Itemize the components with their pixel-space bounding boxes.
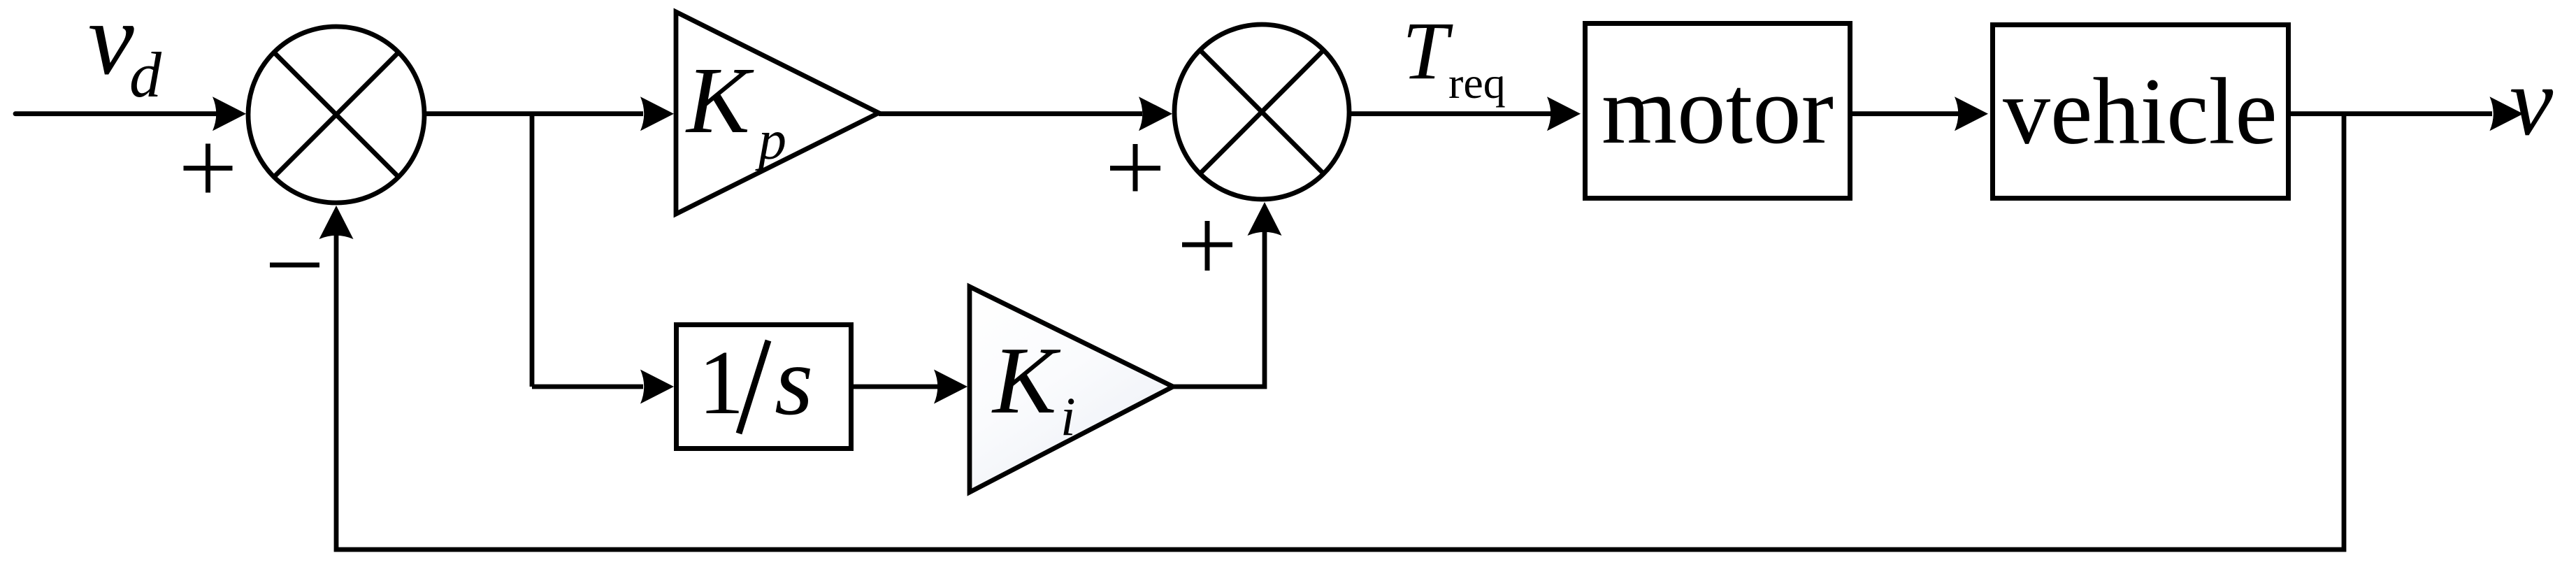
- label 1/s slash: [739, 340, 768, 433]
- svg-text:1: 1: [698, 332, 744, 433]
- summing junction S1: [248, 27, 424, 203]
- integrator block 1/s: [677, 325, 851, 449]
- label 1/s: [698, 325, 813, 436]
- wire integrator to Ki: [853, 385, 940, 389]
- wire S2 to motor: [1349, 111, 1553, 116]
- summing junction S2: [1174, 24, 1349, 199]
- S1 cross X: [274, 52, 398, 177]
- svg-text:i: i: [1060, 386, 1076, 447]
- wire motor to vehicle: [1852, 111, 1960, 116]
- svg-text:vehicle: vehicle: [2003, 59, 2278, 164]
- arrowhead at output v: [2490, 96, 2524, 131]
- wire branch to integrator: [532, 385, 643, 389]
- svg-text:s: s: [775, 325, 813, 436]
- arrowhead feedback into S1 bottom: [319, 206, 354, 239]
- svg-text:K: K: [991, 327, 1061, 433]
- arrowhead into motor: [1547, 96, 1581, 131]
- arrowhead into Ki: [934, 370, 967, 404]
- wire S1 to Kp: [424, 111, 643, 116]
- plus sign at S2 left input: [1110, 144, 1160, 192]
- arrowhead into summing junction S1: [213, 96, 246, 131]
- label vd: [88, 0, 162, 110]
- svg-text:v: v: [2510, 48, 2554, 156]
- wire vehicle to output v: [2291, 111, 2492, 116]
- svg-text:K: K: [685, 48, 754, 153]
- svg-text:T: T: [1402, 5, 1453, 96]
- plus sign at S2 bottom input: [1182, 221, 1232, 271]
- S2 cross X: [1200, 50, 1324, 174]
- minus sign at S1 feedback input: [270, 263, 319, 268]
- label motor: [1602, 57, 1834, 164]
- wire input vd: [15, 111, 218, 116]
- block motor: [1585, 24, 1850, 199]
- svg-text:motor: motor: [1602, 57, 1834, 164]
- block vehicle: [1993, 25, 2289, 199]
- gain block Ki triangle: [970, 287, 1173, 492]
- arrowhead into S2 bottom: [1248, 202, 1282, 236]
- label vehicle: [2003, 59, 2278, 164]
- wire Ki to S2: [1173, 227, 1265, 389]
- svg-text:v: v: [88, 0, 134, 96]
- svg-text:d: d: [129, 39, 162, 110]
- label Treq: [1402, 5, 1506, 108]
- arrowhead into summing junction S2: [1139, 96, 1172, 131]
- wire feedback loop: [336, 114, 2344, 550]
- gain block Kp triangle: [676, 12, 879, 214]
- arrowhead into vehicle: [1955, 96, 1988, 131]
- label output v: [2510, 48, 2554, 156]
- arrowhead into integrator block: [640, 370, 674, 404]
- svg-text:req: req: [1448, 58, 1506, 108]
- wire Kp to S2: [879, 111, 1142, 116]
- node branch junction: [530, 114, 535, 387]
- plus sign at S1 input: [184, 144, 233, 193]
- svg-text:p: p: [755, 110, 786, 171]
- label Kp: [685, 48, 786, 171]
- label Ki: [991, 327, 1076, 447]
- arrowhead into Kp: [640, 96, 674, 131]
